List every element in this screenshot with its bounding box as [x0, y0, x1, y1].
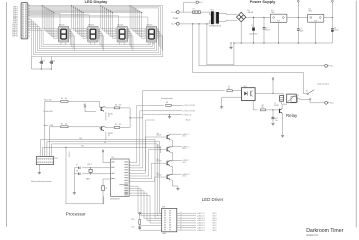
label Processor	[66, 211, 86, 216]
svg-text:DISP3: DISP3	[13, 10, 18, 12]
svg-text:LED 2: LED 2	[182, 148, 186, 150]
wire Q1 Q2 collectors join	[120, 108, 131, 128]
label 1/Color LED	[43, 110, 53, 113]
svg-text:DISP2: DISP2	[13, 9, 18, 11]
svg-text:DISP14: DISP14	[12, 32, 18, 34]
transistor Q1	[101, 107, 113, 118]
svg-text:K1: K1	[297, 95, 299, 97]
svg-text:HD1105: HD1105	[59, 25, 65, 27]
terminal X1-1 (AC in)	[171, 11, 179, 14]
connector LED1 bicolor	[83, 104, 96, 112]
svg-text:DISP13: DISP13	[12, 30, 18, 32]
svg-text:4k7: 4k7	[262, 105, 265, 107]
wire transformer secondary to bridge	[219, 13, 237, 21]
resistor R2	[61, 124, 68, 128]
ground LED driver	[172, 186, 179, 190]
crystal Q5	[86, 164, 92, 181]
capacitor C3	[297, 18, 303, 44]
svg-text:C7: C7	[76, 165, 78, 167]
svg-text:LED Display: LED Display	[85, 0, 109, 4]
wire cap return rail	[32, 57, 52, 69]
svg-text:BC546: BC546	[108, 133, 113, 135]
capacitor C4 100uF	[331, 18, 338, 44]
wire IC3 pins to driver bases	[129, 137, 167, 181]
wire dimming row 2	[151, 110, 183, 112]
wire SV2 pins up	[41, 138, 162, 218]
svg-text:B1: B1	[248, 10, 250, 12]
wire relay coil to collector	[281, 101, 284, 109]
wire transformer center tap to ground bus	[206, 23, 234, 65]
svg-text:4MHz: 4MHz	[86, 179, 90, 181]
svg-text:C2: C2	[265, 27, 267, 29]
7-segment display DIS3	[115, 25, 129, 42]
svg-text:Dimming header: Dimming header	[161, 98, 173, 100]
svg-text:DISP5: DISP5	[13, 14, 18, 16]
svg-text:OK1: OK1	[244, 86, 247, 88]
svg-text:DISP6: DISP6	[13, 16, 18, 18]
svg-text:C10: C10	[131, 226, 134, 228]
capacitor C6	[49, 57, 55, 70]
svg-text:R1: R1	[61, 98, 63, 100]
svg-text:LED 4: LED 4	[213, 220, 217, 222]
wire opto emitter to base resistor	[253, 100, 258, 110]
wire R2 to Q2 base	[68, 127, 101, 129]
wire cascade drops to displays	[42, 5, 145, 38]
label Darkroom Timer	[306, 228, 343, 234]
label LED Driver	[202, 197, 224, 202]
wire 9V rail	[287, 17, 308, 18]
svg-text:DISP10: DISP10	[12, 24, 18, 26]
svg-text:CRY-1: CRY-1	[87, 164, 92, 166]
capacitor C11 base	[272, 110, 278, 124]
svg-text:DISP8: DISP8	[13, 20, 18, 22]
svg-text:Darkroom Timer: Darkroom Timer	[306, 228, 343, 234]
svg-text:C9: C9	[105, 188, 107, 190]
svg-text:Q6: Q6	[157, 173, 159, 175]
svg-text:SV2: SV2	[55, 158, 58, 160]
svg-text:2200uF/35V: 2200uF/35V	[249, 33, 258, 35]
transistor Q2	[101, 126, 113, 137]
svg-text:7805: 7805	[308, 11, 312, 13]
label Green - OFF	[43, 124, 53, 127]
wire Q2 emitter	[105, 132, 107, 140]
wire display right-pin drops	[69, 29, 163, 50]
capacitor C8	[76, 171, 80, 175]
svg-text:7809: 7809	[271, 12, 275, 14]
svg-text:10n: 10n	[275, 120, 278, 122]
svg-text:Green - OFF: Green - OFF	[43, 124, 53, 127]
wire PS ground bus	[234, 22, 333, 44]
wire AC line to terminal	[179, 2, 196, 12]
ground dimming	[168, 114, 171, 118]
flag PD.2 net	[183, 110, 195, 113]
wire opto cathode to ground	[222, 97, 242, 106]
svg-text:Processor: Processor	[66, 211, 86, 216]
ground C11	[271, 124, 274, 126]
ground opto	[220, 107, 223, 109]
svg-text:100nF: 100nF	[265, 29, 269, 31]
terminal X1-2 (AC in)	[171, 22, 179, 25]
title LED Display	[85, 0, 109, 4]
svg-text:DISP15: DISP15	[12, 34, 18, 36]
svg-text:C4: C4	[334, 27, 336, 29]
wire Q3 collector flag	[170, 133, 190, 138]
svg-text:X1-2: X1-2	[171, 24, 174, 26]
voltage regulator IC1 78L05	[270, 10, 287, 43]
svg-text:C3: C3	[300, 29, 302, 31]
resistor R3	[104, 105, 122, 109]
label 115VAC	[173, 17, 180, 20]
svg-text:1/Color LED: 1/Color LED	[43, 110, 53, 113]
svg-text:LED 7: LED 7	[213, 227, 217, 229]
wire SV3 right fan	[177, 212, 217, 232]
svg-text:Relay: Relay	[286, 113, 298, 118]
svg-text:LED Driver: LED Driver	[202, 197, 224, 202]
svg-text:IC3: IC3	[112, 157, 115, 159]
svg-text:R10: R10	[131, 219, 134, 221]
wire DC bus +9V	[246, 17, 270, 18]
label (Fuse)	[186, 120, 191, 122]
svg-text:IC1: IC1	[271, 10, 274, 12]
label version	[306, 234, 318, 237]
reset circuit R5 C9	[102, 179, 111, 204]
svg-text:BC547: BC547	[157, 135, 162, 137]
svg-text:POWER: POWER	[68, 152, 70, 159]
wire Green-OFF from SV2	[49, 127, 60, 157]
label Dimming header	[161, 98, 173, 100]
svg-text:R3: R3	[115, 105, 117, 107]
svg-text:X2-1: X2-1	[330, 66, 333, 68]
svg-text:C6: C6	[53, 61, 55, 63]
title Power Supply	[250, 0, 277, 4]
wire dimming row 3	[164, 114, 183, 116]
svg-text:C1: C1	[251, 25, 253, 27]
ground PS	[229, 42, 232, 48]
svg-text:LED 4: LED 4	[182, 176, 186, 178]
svg-text:DISP9: DISP9	[13, 22, 18, 24]
wire Red-ON from SV2	[45, 101, 61, 156]
svg-text:10k: 10k	[65, 98, 68, 100]
svg-text:Q1: Q1	[108, 115, 110, 117]
terminal X2-2 lamp	[325, 101, 334, 104]
svg-text:BC547: BC547	[274, 105, 279, 107]
capacitor C1 2200uF	[249, 18, 258, 44]
svg-text:HD1105: HD1105	[118, 25, 124, 27]
wire IC3 upper pins to headers	[129, 105, 163, 170]
svg-text:100uF: 100uF	[334, 29, 338, 31]
page border right	[355, 1, 357, 228]
svg-text:LED 8: LED 8	[213, 230, 217, 232]
wire under-display loop bus	[28, 6, 163, 57]
svg-text:Q2: Q2	[108, 135, 110, 137]
supply flag +5V IC3	[102, 150, 110, 163]
connector SV3 LED header	[162, 207, 177, 236]
svg-text:LEDS: LEDS	[162, 233, 166, 235]
terminal X2-1 lamp	[325, 64, 334, 67]
svg-text:DISP11: DISP11	[12, 26, 17, 28]
svg-text:(Fuse): (Fuse)	[186, 120, 191, 122]
svg-text:X2-2: X2-2	[330, 103, 333, 105]
capacitor C5	[39, 57, 45, 70]
wire R1 to Q1 base	[68, 101, 101, 107]
relay K1	[280, 93, 300, 106]
svg-text:LED 1: LED 1	[182, 136, 186, 138]
resistor R10	[131, 219, 140, 230]
svg-text:C8: C8	[76, 171, 78, 173]
wire 5V rail	[324, 17, 333, 18]
svg-text:BC546: BC546	[108, 114, 113, 116]
wire processor box outline	[43, 145, 161, 203]
svg-text:LED 1: LED 1	[213, 213, 217, 215]
ground SV2	[38, 165, 41, 174]
connector SV1 pin labels	[12, 7, 18, 38]
terminal AC-1	[196, 1, 203, 4]
svg-text:Power Supply: Power Supply	[250, 0, 277, 4]
resistor R4	[104, 124, 122, 128]
supply flag +5V pullup	[139, 212, 141, 219]
flag PD.3 net	[183, 114, 191, 117]
capacitor C10	[131, 226, 141, 228]
svg-text:S2: S2	[306, 90, 308, 92]
wire LED driver emitter chain	[167, 139, 172, 186]
svg-text:R2: R2	[61, 124, 63, 126]
wire digit select lines	[28, 14, 148, 27]
svg-text:10k: 10k	[65, 124, 68, 126]
fuse F1	[193, 8, 201, 13]
resistor R1	[61, 98, 68, 102]
transistor Q3 LED driver	[157, 133, 170, 140]
svg-text:TR1: TR1	[211, 10, 214, 12]
7-segment display DIS4	[145, 25, 159, 42]
svg-text:LED 3: LED 3	[213, 218, 217, 220]
wire crystal bus	[74, 167, 110, 193]
ground crystal	[73, 193, 76, 195]
connector SV2 switch header	[36, 157, 57, 165]
svg-text:R4: R4	[115, 124, 117, 126]
wire Q4 collector flag	[170, 145, 190, 150]
svg-text:HD1105: HD1105	[147, 25, 153, 27]
wire fuse to transformer	[201, 12, 211, 15]
svg-text:G5LE: G5LE	[283, 104, 287, 106]
svg-text:470: 470	[119, 124, 122, 126]
svg-text:10uF: 10uF	[300, 31, 304, 33]
wire relay common to contact	[296, 98, 309, 101]
7-segment display DIS1	[57, 25, 71, 42]
wire AC to lamp terminal	[198, 23, 324, 66]
connector SV1 (display header)	[21, 3, 30, 39]
ground T1 emitter	[281, 136, 284, 138]
svg-text:Q4: Q4	[157, 145, 159, 147]
svg-text:1k: 1k	[228, 86, 230, 88]
optocoupler OK1	[241, 86, 255, 101]
supply flag +5V	[332, 0, 334, 17]
svg-text:X1-1: X1-1	[171, 12, 174, 14]
bridge rectifier B1	[237, 10, 254, 22]
transistor Q6 LED driver	[157, 173, 170, 180]
resistor R7	[227, 86, 242, 91]
svg-text:F1: F1	[193, 8, 195, 10]
wire IC to dimming resistor	[148, 104, 164, 106]
7-segment display DIS2	[86, 25, 100, 42]
resistor R8	[260, 105, 279, 111]
supply flag +9V	[297, 0, 299, 17]
supply flag +5V relay	[272, 78, 274, 94]
wire emitter to ground	[282, 113, 284, 135]
wire LED drive to optocoupler	[130, 91, 224, 118]
label Red - ON	[44, 99, 52, 101]
capacitor C7	[76, 165, 80, 169]
svg-text:DISP12: DISP12	[12, 28, 18, 30]
wire segment bus lines a-g	[28, 6, 163, 13]
svg-text:LED 5: LED 5	[213, 223, 217, 225]
microcontroller IC3	[111, 157, 131, 200]
wire AC line 2 to transformer	[179, 21, 211, 24]
wire opto collector to +5V bus	[255, 92, 283, 94]
voltage regulator IC2 7805	[308, 9, 324, 43]
svg-text:DISP16: DISP16	[12, 36, 18, 38]
wire Q5 collector flag	[170, 159, 190, 164]
wire AC to relay contact	[192, 23, 304, 93]
flag PD.1 net	[183, 104, 195, 107]
label switch and led set connector	[31, 180, 52, 183]
svg-text:Q3: Q3	[157, 133, 159, 135]
wire pullup to SV3	[140, 225, 162, 230]
svg-text:C11: C11	[275, 118, 278, 120]
relay contact switch	[304, 90, 325, 103]
transistor Q5 LED driver	[157, 159, 170, 166]
svg-text:DISP1: DISP1	[13, 7, 18, 9]
svg-text:T1: T1	[274, 103, 276, 105]
transistor T1	[274, 103, 282, 113]
svg-text:LED 6: LED 6	[213, 225, 217, 227]
svg-text:Version 0.9: Version 0.9	[306, 234, 318, 236]
resistor R6	[166, 102, 183, 106]
svg-text:SV3: SV3	[162, 207, 165, 209]
svg-text:DISP4: DISP4	[13, 12, 18, 14]
wire display bottom drops	[61, 42, 153, 45]
svg-text:DISP7: DISP7	[13, 18, 18, 20]
svg-text:IC2: IC2	[308, 9, 311, 11]
transistor Q4 LED driver	[157, 145, 170, 152]
svg-text:470: 470	[119, 105, 122, 107]
svg-text:HD1105: HD1105	[88, 25, 94, 27]
svg-text:Q5: Q5	[157, 159, 159, 161]
svg-text:R6: R6	[166, 102, 168, 104]
svg-text:LED 2: LED 2	[213, 215, 217, 217]
transformer TR1	[209, 10, 222, 28]
svg-text:C5: C5	[43, 61, 45, 63]
wire IC3 lower pins to SV3	[129, 186, 162, 223]
label Lamp out switch	[317, 83, 329, 86]
svg-text:115VAC: 115VAC	[173, 17, 180, 20]
svg-text:LED 3: LED 3	[182, 162, 186, 164]
page border left	[6, 2, 8, 227]
capacitor C2 100n	[263, 18, 270, 44]
wire Q6 collector flag	[170, 173, 190, 178]
label Relay	[286, 113, 298, 118]
wire Q1 emitter	[105, 112, 107, 120]
